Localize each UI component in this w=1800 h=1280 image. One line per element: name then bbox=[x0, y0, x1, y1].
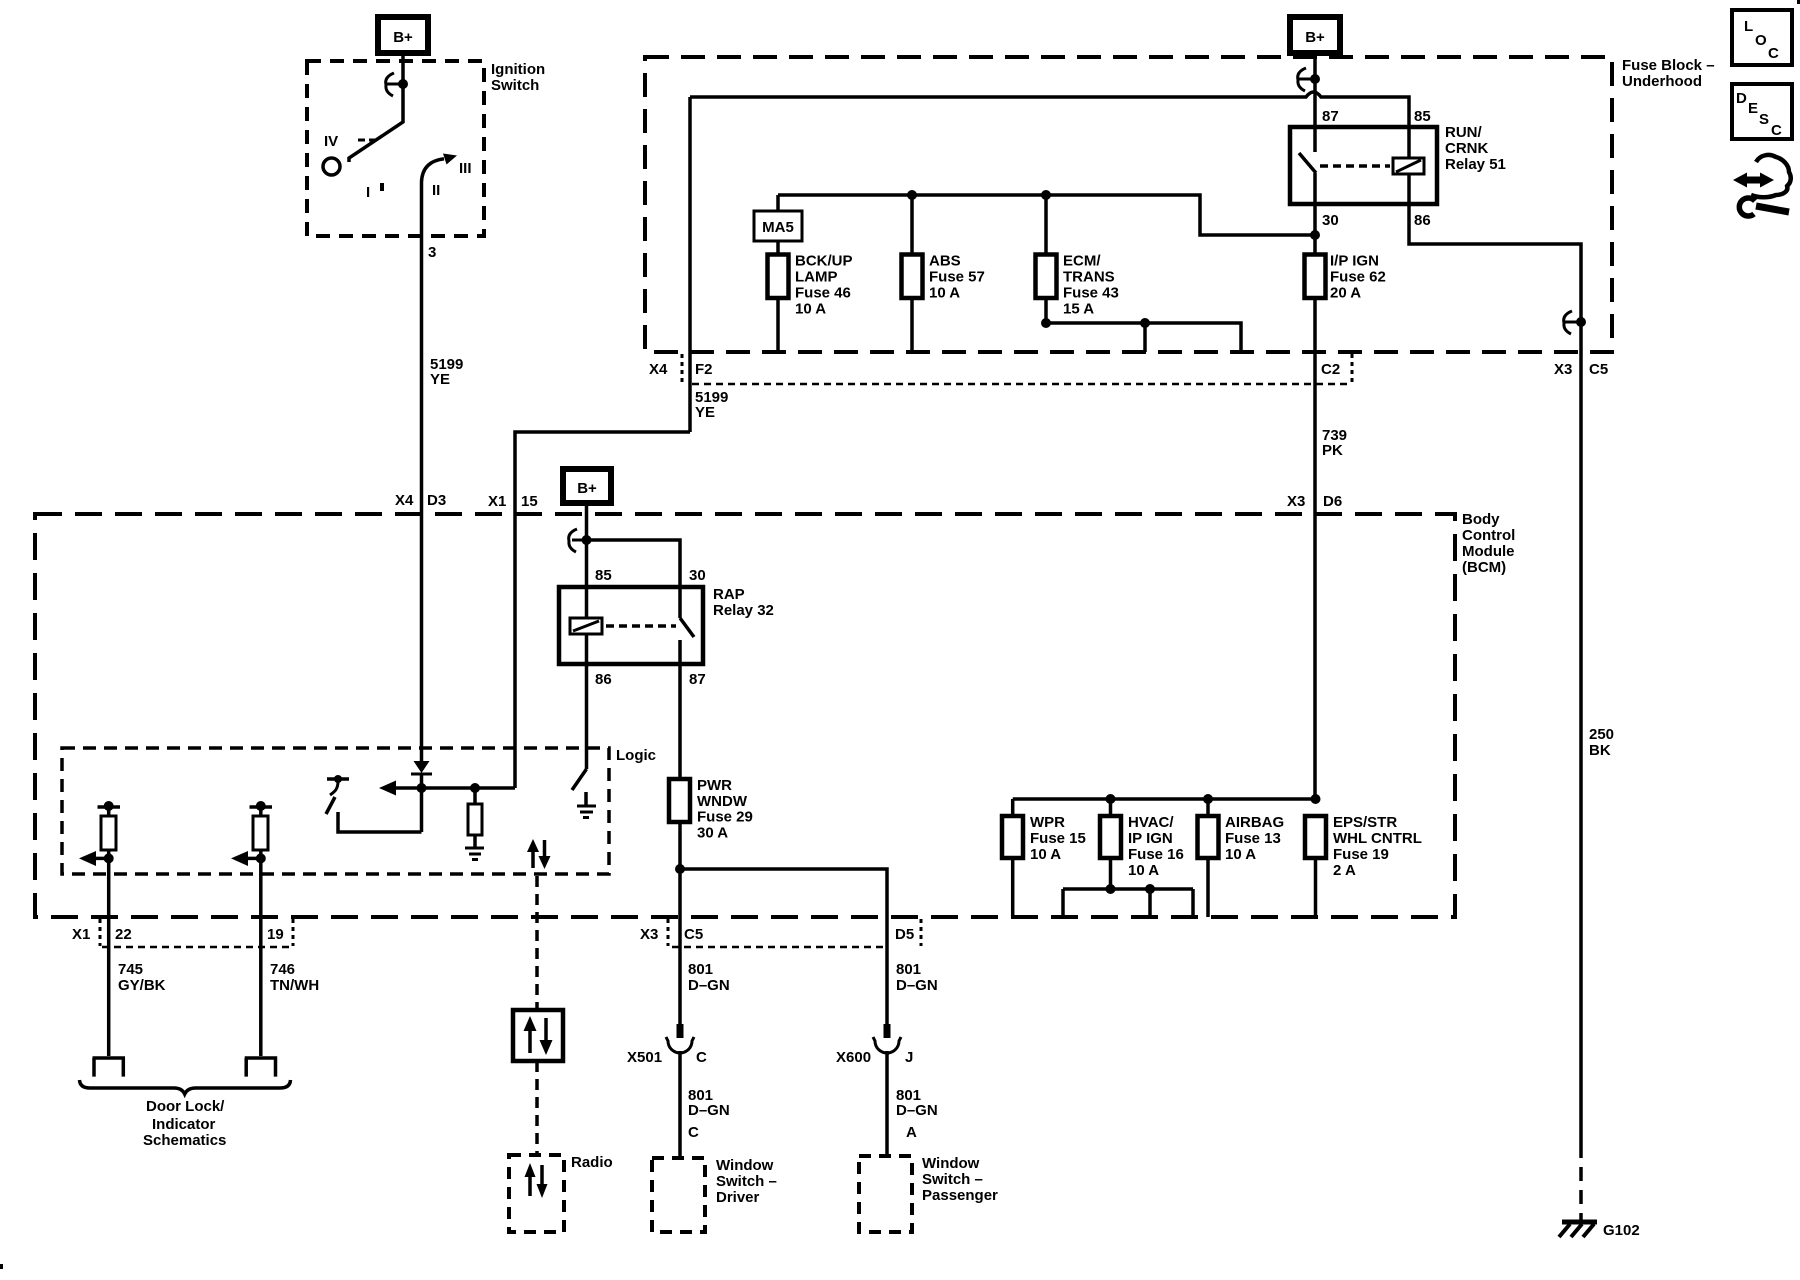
wire resistor to pin 19 bbox=[259, 850, 263, 1056]
radio dashed box bbox=[509, 1155, 564, 1232]
svg-text:B+: B+ bbox=[577, 480, 597, 497]
svg-text:Radio: Radio bbox=[571, 1154, 613, 1171]
svg-text:X1: X1 bbox=[488, 493, 506, 510]
svg-text:C: C bbox=[1771, 122, 1782, 139]
svg-text:2 A: 2 A bbox=[1333, 862, 1356, 879]
resistor (logic pull-down) bbox=[468, 788, 482, 848]
wire X501 to window switch driver bbox=[678, 1051, 682, 1158]
svg-text:C5: C5 bbox=[684, 926, 703, 943]
svg-text:TN/WH: TN/WH bbox=[270, 977, 319, 994]
ground switch blade (RAP 86) bbox=[572, 769, 587, 790]
fuse 43 ECM/TRANS bbox=[1036, 255, 1057, 299]
terminal hook (fuse block B+ input) bbox=[1297, 68, 1320, 91]
ground G102 bbox=[1559, 1222, 1597, 1237]
fuse block underhood dashed box bbox=[645, 57, 1612, 352]
svg-text:Schematics: Schematics bbox=[143, 1132, 226, 1149]
wire MA5 to fuse 46 bbox=[776, 241, 780, 255]
svg-text:15: 15 bbox=[521, 493, 538, 510]
wire RAP pin 86 to logic ground switch bbox=[585, 634, 589, 769]
svg-text:Switch –: Switch – bbox=[922, 1171, 983, 1188]
svg-text:A: A bbox=[906, 1124, 917, 1141]
brace door lock schematics bbox=[80, 1080, 291, 1094]
wire fuse 13 down bbox=[1206, 858, 1210, 917]
svg-text:Logic: Logic bbox=[616, 747, 656, 764]
wire RAP pin 87 to PWR WNDW fuse bbox=[678, 640, 682, 779]
corner tick top right bbox=[1797, 0, 1800, 4]
svg-text:746: 746 bbox=[270, 961, 295, 978]
svg-text:3: 3 bbox=[428, 244, 436, 261]
svg-text:F2: F2 bbox=[695, 361, 713, 378]
svg-text:AIRBAG: AIRBAG bbox=[1225, 814, 1284, 831]
svg-text:87: 87 bbox=[1322, 108, 1339, 125]
svg-text:G102: G102 bbox=[1603, 1222, 1640, 1239]
svg-text:GY/BK: GY/BK bbox=[118, 977, 166, 994]
resistor (logic, left) bbox=[101, 816, 116, 850]
svg-text:Door Lock/: Door Lock/ bbox=[146, 1098, 225, 1115]
svg-text:WHL CNTRL: WHL CNTRL bbox=[1333, 830, 1422, 847]
fuse 13 AIRBAG bbox=[1198, 816, 1219, 858]
svg-text:X3: X3 bbox=[640, 926, 658, 943]
svg-text:19: 19 bbox=[267, 926, 284, 943]
battery feed B+ (BCM) bbox=[563, 469, 611, 503]
svg-text:D–GN: D–GN bbox=[896, 1102, 938, 1119]
svg-text:YE: YE bbox=[430, 371, 450, 388]
door lock pin terminal left bbox=[93, 1058, 126, 1077]
svg-text:Relay 32: Relay 32 bbox=[713, 602, 774, 619]
svg-text:Relay 51: Relay 51 bbox=[1445, 156, 1506, 173]
diode (ignition sense) bbox=[411, 761, 432, 832]
svg-text:I: I bbox=[366, 184, 370, 201]
svg-text:BK: BK bbox=[1589, 742, 1611, 759]
svg-text:MA5: MA5 bbox=[762, 219, 794, 236]
wire bus to fuse 13 bbox=[1206, 799, 1210, 816]
svg-text:(BCM): (BCM) bbox=[1462, 559, 1506, 576]
wire fuse bus to pin 30 bbox=[778, 195, 1315, 235]
ignition switch pivot bbox=[323, 158, 340, 175]
relay 51 coil bbox=[1393, 158, 1424, 174]
svg-text:Fuse 13: Fuse 13 bbox=[1225, 830, 1281, 847]
svg-text:10 A: 10 A bbox=[1128, 862, 1159, 879]
svg-text:RUN/: RUN/ bbox=[1445, 124, 1482, 141]
svg-text:Passenger: Passenger bbox=[922, 1187, 998, 1204]
wire fuse 43 outputs bbox=[1046, 298, 1241, 352]
svg-text:Module: Module bbox=[1462, 543, 1515, 560]
svg-text:Driver: Driver bbox=[716, 1189, 760, 1206]
wire fuse 16 outputs bbox=[1063, 858, 1193, 917]
svg-text:30: 30 bbox=[1322, 212, 1339, 229]
relay 51 switch blade bbox=[1313, 127, 1317, 152]
window switch driver dashed box bbox=[652, 1158, 705, 1232]
relay 51 contact dashed link bbox=[1320, 164, 1390, 168]
svg-text:ABS: ABS bbox=[929, 253, 961, 270]
svg-text:B+: B+ bbox=[393, 29, 413, 46]
wire fuse 46 to connector F2 bbox=[776, 298, 780, 352]
RAP relay 32 box bbox=[559, 587, 703, 664]
wire switch common bbox=[349, 84, 403, 162]
svg-text:PWR: PWR bbox=[697, 777, 732, 794]
svg-text:E: E bbox=[1748, 100, 1758, 117]
junction dots on fuse bus bbox=[907, 190, 917, 200]
svg-text:85: 85 bbox=[595, 567, 612, 584]
arrow tap left bbox=[247, 857, 261, 861]
svg-text:20 A: 20 A bbox=[1330, 285, 1361, 302]
arrow tap left bbox=[95, 857, 109, 861]
logic dashed box bbox=[62, 748, 609, 874]
window switch passenger dashed box bbox=[859, 1156, 912, 1232]
svg-text:30: 30 bbox=[689, 567, 706, 584]
wire C5 to X501 bbox=[678, 917, 682, 1025]
svg-text:Fuse 43: Fuse 43 bbox=[1063, 285, 1119, 302]
svg-text:X3: X3 bbox=[1287, 493, 1305, 510]
svg-text:10 A: 10 A bbox=[1030, 846, 1061, 863]
svg-text:D: D bbox=[1736, 90, 1747, 107]
svg-text:ECM/: ECM/ bbox=[1063, 253, 1101, 270]
svg-text:Ignition: Ignition bbox=[491, 61, 545, 78]
wire 739 PK to BCM fuse bus bbox=[1013, 797, 1316, 801]
in-line connector X600 bbox=[873, 1024, 901, 1053]
svg-text:I/P IGN: I/P IGN bbox=[1330, 253, 1379, 270]
svg-text:Fuse 46: Fuse 46 bbox=[795, 285, 851, 302]
svg-text:J: J bbox=[905, 1049, 913, 1066]
wire B+ into BCM bbox=[585, 503, 589, 618]
svg-text:Control: Control bbox=[1462, 527, 1515, 544]
DESC icon box bbox=[1732, 84, 1792, 139]
radio bidirectional arrows bbox=[525, 1163, 548, 1198]
svg-text:X3: X3 bbox=[1554, 361, 1572, 378]
wire jog to x=515 bbox=[515, 432, 690, 788]
svg-text:C2: C2 bbox=[1321, 361, 1340, 378]
svg-text:D5: D5 bbox=[895, 926, 914, 943]
wire relay 51 pin 30 bbox=[1313, 173, 1317, 255]
svg-text:WPR: WPR bbox=[1030, 814, 1065, 831]
ignition switch dashed box bbox=[307, 61, 484, 236]
svg-text:15 A: 15 A bbox=[1063, 301, 1094, 318]
svg-text:10 A: 10 A bbox=[1225, 846, 1256, 863]
svg-text:22: 22 bbox=[115, 926, 132, 943]
key switch symbol in logic bbox=[326, 775, 349, 814]
ground (logic pull-down) bbox=[465, 848, 484, 860]
svg-text:B+: B+ bbox=[1305, 29, 1325, 46]
svg-text:Fuse 19: Fuse 19 bbox=[1333, 846, 1389, 863]
svg-text:C: C bbox=[688, 1124, 699, 1141]
terminal hook (BCM B+ input) bbox=[569, 529, 592, 552]
wire 5199 YE feed to relay pin 85 (with hop over B+ wire) bbox=[690, 92, 1409, 158]
svg-text:X501: X501 bbox=[627, 1049, 662, 1066]
wire 5199 YE vertical drop at x=690 bbox=[688, 97, 692, 432]
wire bus to fuse 43 bbox=[1044, 195, 1048, 255]
wire B+ into fuse block bbox=[1313, 53, 1317, 127]
svg-text:YE: YE bbox=[695, 404, 715, 421]
RAP relay contact dashed link bbox=[606, 624, 676, 628]
svg-text:D–GN: D–GN bbox=[688, 977, 730, 994]
RAP relay switch blade bbox=[680, 618, 694, 637]
bidirectional signal arrows (logic) bbox=[527, 839, 551, 869]
svg-text:PK: PK bbox=[1322, 442, 1343, 459]
svg-text:Underhood: Underhood bbox=[1622, 73, 1702, 90]
svg-text:L: L bbox=[1744, 18, 1753, 35]
wire ignition switch pin 3 output, circuit 5199 YE bbox=[420, 182, 424, 761]
svg-text:745: 745 bbox=[118, 961, 143, 978]
svg-text:801: 801 bbox=[688, 961, 713, 978]
svg-text:D3: D3 bbox=[427, 492, 446, 509]
svg-text:801: 801 bbox=[896, 961, 921, 978]
svg-text:C: C bbox=[696, 1049, 707, 1066]
svg-text:C5: C5 bbox=[1589, 361, 1608, 378]
fuse 46 BCK/UP LAMP bbox=[768, 255, 789, 299]
wire bus to fuse 16 bbox=[1109, 799, 1113, 816]
LOC icon box bbox=[1732, 10, 1792, 65]
wire bus to fuse 57 bbox=[910, 195, 914, 255]
svg-text:Fuse 15: Fuse 15 bbox=[1030, 830, 1086, 847]
door lock pin terminal right bbox=[245, 1058, 278, 1077]
ignition switch rotation arc to III bbox=[422, 159, 445, 182]
svg-text:85: 85 bbox=[1414, 108, 1431, 125]
svg-text:D–GN: D–GN bbox=[896, 977, 938, 994]
wire resistor to pin 22 bbox=[107, 850, 111, 1056]
svg-text:10 A: 10 A bbox=[795, 301, 826, 318]
corner tick bottom left bbox=[0, 1264, 3, 1269]
svg-text:Switch –: Switch – bbox=[716, 1173, 777, 1190]
terminal hook on 250 BK wire bbox=[1564, 311, 1586, 334]
dashed wire to G102 bbox=[1579, 1144, 1583, 1222]
wire fuse 19 down bbox=[1314, 858, 1318, 917]
schematic navigation icon (arrows and wrench) bbox=[1733, 155, 1791, 216]
svg-text:86: 86 bbox=[1414, 212, 1431, 229]
fuse 19 EPS/STR WHL CNTRL bbox=[1305, 816, 1326, 858]
logic output driver right (door lock) bbox=[250, 801, 273, 816]
logic output driver left (door lock) bbox=[98, 801, 121, 816]
svg-text:X4: X4 bbox=[649, 361, 668, 378]
dashed wire logic to serial data box bbox=[535, 876, 539, 1010]
wire fuse 29 to connectors C5/D5 bbox=[678, 822, 682, 917]
connector MA5 bbox=[754, 211, 802, 241]
wire B+ to RAP relay pin 30 bbox=[587, 540, 681, 618]
battery feed B+ (ignition switch) bbox=[378, 17, 428, 53]
svg-text:II: II bbox=[432, 182, 440, 199]
fuse 29 PWR WNDW bbox=[669, 779, 690, 822]
body control module dashed box bbox=[35, 514, 1455, 917]
svg-text:Indicator: Indicator bbox=[152, 1116, 216, 1133]
svg-text:D6: D6 bbox=[1323, 493, 1342, 510]
wire relay 51 pin 86 to ground circuit 250 BK bbox=[1409, 174, 1581, 1144]
svg-text:III: III bbox=[459, 160, 472, 177]
wire bus down to MA5 bbox=[776, 195, 780, 211]
wire fuse 62 output circuit 739 PK bbox=[1313, 298, 1317, 799]
svg-text:Window: Window bbox=[716, 1157, 774, 1174]
svg-text:X1: X1 bbox=[72, 926, 90, 943]
svg-text:X4: X4 bbox=[395, 492, 414, 509]
dashed wire serial data to radio bbox=[535, 1061, 539, 1155]
svg-text:Fuse 62: Fuse 62 bbox=[1330, 269, 1386, 286]
svg-text:Fuse 57: Fuse 57 bbox=[929, 269, 985, 286]
fuse 15 WPR bbox=[1002, 816, 1023, 858]
svg-text:RAP: RAP bbox=[713, 586, 745, 603]
fuse 16 HVAC/IP IGN bbox=[1100, 816, 1121, 858]
svg-text:Fuse 29: Fuse 29 bbox=[697, 809, 753, 826]
svg-text:Body: Body bbox=[1462, 511, 1500, 528]
RAP relay coil bbox=[570, 618, 602, 634]
svg-text:S: S bbox=[1759, 111, 1769, 128]
svg-text:CRNK: CRNK bbox=[1445, 140, 1488, 157]
svg-text:Fuse 16: Fuse 16 bbox=[1128, 846, 1184, 863]
svg-text:Switch: Switch bbox=[491, 77, 539, 94]
svg-text:250: 250 bbox=[1589, 726, 1614, 743]
wire bus to fuse 15 bbox=[1011, 799, 1015, 816]
svg-text:C: C bbox=[1768, 45, 1779, 62]
wire B+ to ignition switch terminal bbox=[401, 53, 405, 84]
svg-text:O: O bbox=[1755, 32, 1767, 49]
svg-text:LAMP: LAMP bbox=[795, 269, 838, 286]
RUN/CRNK relay 51 box bbox=[1290, 127, 1437, 204]
svg-text:D–GN: D–GN bbox=[688, 1102, 730, 1119]
svg-text:EPS/STR: EPS/STR bbox=[1333, 814, 1397, 831]
wire key switch contact bbox=[338, 812, 422, 832]
svg-text:X600: X600 bbox=[836, 1049, 871, 1066]
svg-text:10 A: 10 A bbox=[929, 285, 960, 302]
fuse 62 I/P IGN bbox=[1305, 255, 1326, 299]
battery feed B+ (fuse block) bbox=[1290, 17, 1340, 53]
svg-text:BCK/UP: BCK/UP bbox=[795, 253, 853, 270]
in-line connector X501 bbox=[666, 1024, 694, 1053]
svg-text:86: 86 bbox=[595, 671, 612, 688]
fuse 57 ABS bbox=[902, 255, 923, 299]
svg-text:Fuse Block –: Fuse Block – bbox=[1622, 57, 1715, 74]
wire logic sense line with arrow bbox=[394, 786, 515, 790]
svg-text:30 A: 30 A bbox=[697, 825, 728, 842]
svg-text:TRANS: TRANS bbox=[1063, 269, 1115, 286]
svg-text:HVAC/: HVAC/ bbox=[1128, 814, 1174, 831]
wire X600 to window switch passenger bbox=[885, 1051, 889, 1156]
wire D5 to X600 bbox=[885, 917, 889, 1025]
wire fuse 57 down bbox=[910, 298, 914, 352]
svg-text:Window: Window bbox=[922, 1155, 980, 1172]
terminal hook (ignition switch B+ input) bbox=[385, 73, 408, 96]
svg-text:WNDW: WNDW bbox=[697, 793, 748, 810]
serial data bidirectional box bbox=[513, 1010, 563, 1061]
svg-text:IV: IV bbox=[324, 133, 338, 150]
svg-text:87: 87 bbox=[689, 671, 706, 688]
wire fuse 15 down bbox=[1011, 858, 1015, 917]
ground (logic) bbox=[577, 792, 596, 818]
svg-text:IP IGN: IP IGN bbox=[1128, 830, 1173, 847]
resistor (logic, right) bbox=[253, 816, 268, 850]
